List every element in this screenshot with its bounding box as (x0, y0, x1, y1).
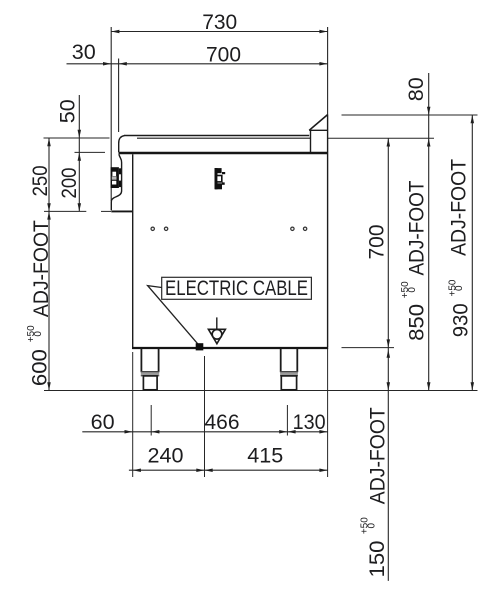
svg-text:0: 0 (407, 287, 418, 293)
screw dot 4 (303, 227, 306, 230)
inner bracket detail under worktop (215, 168, 218, 189)
svg-text:0: 0 (454, 285, 465, 291)
svg-text:0: 0 (367, 522, 378, 528)
splashback column front (310, 130, 312, 152)
wire: back extension line up to top dims (327, 27, 329, 115)
wire: panel-bottom ext left (44, 210, 86, 212)
left leg foot (143, 376, 157, 390)
wire: ext right leg centre tick (286, 405, 288, 436)
worktop edge seam line (137, 137, 311, 139)
dim row 60/466/130 (82, 431, 327, 433)
svg-text:730: 730 (202, 11, 237, 34)
wire: ext body-front down to bottom dims (132, 352, 134, 477)
dim row 240/415 (129, 469, 328, 471)
worktop front edge curve (119, 136, 125, 143)
svg-text:700: 700 (366, 225, 389, 260)
wire: body-bottom ext right (342, 347, 395, 349)
ELECTRIC CABLE label box (162, 277, 312, 299)
svg-text:415: 415 (247, 445, 283, 468)
dim 80/850 vertical x=428.7 (428, 73, 430, 391)
dim 150 arrows (foot height) (387, 350, 391, 358)
svg-text:ADJ-FOOT: ADJ-FOOT (405, 180, 428, 275)
right leg adjuster collar (280, 372, 298, 376)
svg-text:ADJ-FOOT: ADJ-FOOT (448, 159, 471, 256)
svg-text:466: 466 (205, 411, 240, 434)
splashback slope (309, 115, 327, 131)
equipotential bonding symbol stem (216, 317, 218, 329)
worktop top surface (124, 135, 309, 137)
svg-text:930: 930 (450, 303, 473, 337)
control knob (front, side view) (111, 167, 119, 188)
wire: ext back down to bottom dims (327, 348, 329, 477)
wire: worktop-top ext left (44, 137, 110, 139)
svg-text:250: 250 (29, 165, 52, 196)
svg-text:700: 700 (206, 44, 241, 67)
svg-text:850: 850 (405, 304, 428, 341)
dim 700 right vertical x=388.3 (387, 138, 389, 581)
svg-text:60: 60 (91, 411, 115, 434)
dim 730 line (111, 31, 327, 33)
screw dot 2 (164, 227, 167, 230)
screw dot 1 (151, 227, 154, 230)
dim 30/700 top line (67, 63, 328, 65)
svg-text:30: 30 (72, 41, 96, 64)
svg-text:50: 50 (57, 99, 80, 123)
wire: ext cable center (204, 356, 206, 477)
worktop bottom (thick) (119, 152, 328, 154)
right leg foot (281, 376, 296, 390)
leader line to cable entry (148, 286, 199, 346)
body back face (327, 115, 329, 347)
dim 50/200 vertical line x=79.3 (78, 95, 80, 211)
wire: floor line (44, 390, 478, 392)
worktop front face (118, 143, 120, 153)
wire: worktop-top ext right (328, 137, 434, 139)
cable entry filled square (196, 343, 204, 350)
left leg upper (140, 349, 142, 373)
svg-text:150: 150 (366, 541, 389, 578)
wire: top dim extension line x=118.6 (118, 59, 120, 133)
wire: ext left leg centre tick (150, 405, 152, 436)
svg-text:ADJ-FOOT: ADJ-FOOT (30, 220, 53, 317)
svg-text:600: 600 (29, 349, 52, 386)
svg-text:ADJ-FOOT: ADJ-FOOT (367, 407, 390, 504)
svg-text:80: 80 (405, 77, 428, 101)
right leg upper (280, 349, 282, 373)
wire: top dim extension line left (x=111) (110, 27, 112, 201)
svg-text:200: 200 (58, 168, 81, 199)
svg-text:ELECTRIC CABLE: ELECTRIC CABLE (165, 277, 308, 300)
wire: splashback-top ext right (342, 114, 478, 116)
left leg adjuster collar (141, 372, 159, 376)
svg-text:0: 0 (33, 331, 44, 337)
dim 930 vertical x=472.3 (471, 115, 473, 391)
dim 250/600 vertical line x=49 (48, 138, 50, 391)
body bottom (thick) (132, 347, 328, 349)
splashback base line (309, 129, 327, 131)
screw dot 3 (291, 227, 294, 230)
control panel bottom (111, 210, 132, 212)
equipotential bonding symbol triangle (208, 329, 225, 343)
wire: worktop-bottom ext left (75, 151, 106, 153)
equipotential bonding symbol circle (212, 330, 222, 340)
svg-text:240: 240 (148, 445, 184, 468)
body front face (132, 154, 134, 347)
control panel profile (111, 154, 121, 210)
svg-text:130: 130 (293, 411, 326, 434)
